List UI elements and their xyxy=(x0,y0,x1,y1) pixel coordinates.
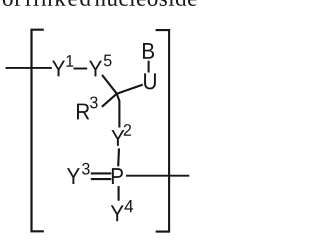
node B (nucleobase) xyxy=(143,43,154,59)
node Y5 letter Y xyxy=(89,61,102,77)
wire: bond P to Y4 xyxy=(118,186,120,201)
node Y2 superscript 2 xyxy=(124,124,131,136)
wire: bond Y5 to central carbon xyxy=(102,75,117,94)
node Y5 superscript 5 xyxy=(104,55,112,67)
caption word "nucleosides" (cut off at top and right edge) xyxy=(95,0,206,6)
wire: bond P to right tail crossing right bracket xyxy=(126,175,189,177)
node R3 superscript 3 xyxy=(90,96,98,108)
node Y1 letter Y xyxy=(52,61,65,77)
caption word "of" (cut off at top edge) xyxy=(3,0,21,6)
node R3 letter R xyxy=(77,104,89,120)
wire: double bond Y3=P lower line xyxy=(91,178,112,180)
wire: bond R3 to central carbon xyxy=(102,94,117,107)
node Y1 superscript 1 xyxy=(66,55,73,67)
wire: bond B to U xyxy=(148,61,150,73)
node U (sugar unit) xyxy=(144,73,156,89)
node Y3 superscript 3 xyxy=(82,163,90,175)
wire: double bond Y3=P upper line xyxy=(91,172,112,174)
wire: bond central carbon to Y2 xyxy=(117,94,120,128)
wire: bond Y2 to P xyxy=(117,148,120,166)
node Y2 letter Y xyxy=(111,130,124,146)
node Y4 letter Y xyxy=(111,205,124,221)
wire: bond central carbon to U xyxy=(117,85,143,94)
right bracket xyxy=(156,30,170,232)
wire: bond Y1-Y5 xyxy=(74,68,88,70)
white page background xyxy=(0,0,198,240)
node Y4 superscript 4 xyxy=(124,200,133,212)
node P (phosphorus) xyxy=(112,168,123,184)
caption word "linked" (cut off at top edge) xyxy=(25,0,91,6)
wire: left tail bond crossing left bracket to Y1 xyxy=(6,67,52,69)
left bracket xyxy=(32,30,44,232)
node Y3 letter Y xyxy=(67,168,80,184)
